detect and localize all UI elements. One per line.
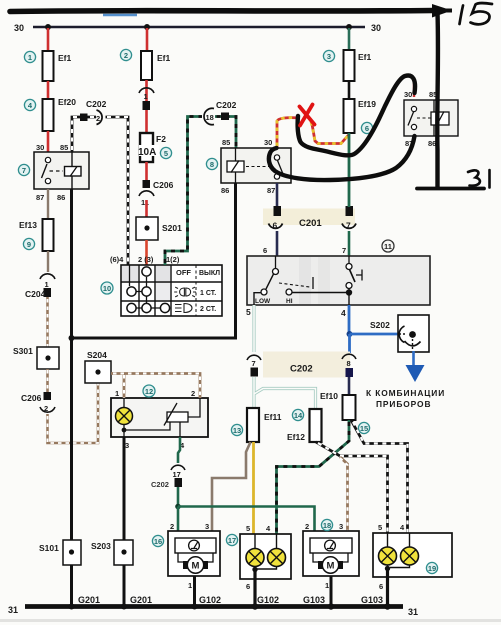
- svg-text:30: 30: [264, 138, 272, 147]
- hand-drawn jumper relay pin87 loop: [269, 136, 415, 180]
- corrector motor right (circled 18): [303, 522, 359, 590]
- svg-text:14: 14: [294, 411, 303, 420]
- svg-text:9: 9: [27, 240, 31, 249]
- wire navy C201-6 to dimmer switch pin6: [276, 231, 279, 256]
- wire green C202-17 to junction: [177, 487, 180, 507]
- connector C202 pin 8: [342, 354, 356, 377]
- relay K7 (circled 7): [34, 143, 89, 202]
- wire blue junction to C202-8: [348, 334, 351, 353]
- wire green bus to Ef1 (3): [348, 28, 351, 50]
- wire red S201 to light switch: [145, 240, 148, 272]
- node blue junction: [347, 331, 353, 337]
- wire green C201-7 to dimmer switch pin7: [348, 231, 351, 256]
- relay top-right: [404, 90, 458, 148]
- svg-text:8: 8: [347, 359, 351, 368]
- wire green junction to corrector 16 pin2: [177, 507, 180, 532]
- svg-text:17: 17: [173, 470, 181, 479]
- wire green-black striped switch pin1(2) to C202-18 to relay K8 pin85: [165, 117, 236, 266]
- svg-text:2: 2: [305, 522, 309, 531]
- svg-text:7: 7: [252, 359, 256, 368]
- fuse Ef1 (middle): [141, 51, 171, 80]
- connector C204 pin 1: [25, 274, 55, 299]
- svg-text:5: 5: [246, 524, 250, 533]
- svg-text:11: 11: [384, 242, 392, 251]
- svg-text:15: 15: [360, 424, 368, 433]
- node ground junction: [69, 335, 75, 341]
- fuse Ef13: [19, 219, 54, 251]
- fuse Ef10: [320, 391, 356, 420]
- node bus30-Ef1b: [144, 24, 150, 30]
- circled 6: [361, 122, 372, 133]
- wire red Ef20 to relay K7 pin30: [47, 131, 50, 152]
- connector C201 pin 6: [269, 206, 283, 231]
- bus 30 line: [33, 26, 365, 29]
- wire brown-white striped C204 to S301: [46, 297, 49, 347]
- circled 10: [101, 282, 113, 294]
- circled 4: [24, 99, 35, 110]
- svg-text:1: 1: [45, 280, 49, 289]
- svg-text:C202: C202: [151, 480, 169, 489]
- wire black-white striped Ef12 to headlamp 19 pin5: [316, 442, 388, 533]
- svg-text:Ef11: Ef11: [264, 412, 282, 422]
- wire striped C206 to S204: [48, 383, 99, 443]
- svg-text:LOW: LOW: [255, 298, 271, 305]
- svg-text:6: 6: [379, 582, 383, 591]
- circled 14: [292, 409, 303, 420]
- svg-text:3: 3: [205, 522, 209, 531]
- svg-text:2 (3): 2 (3): [138, 255, 154, 264]
- fuse Ef11: [247, 408, 282, 442]
- svg-text:Ef13: Ef13: [19, 220, 37, 230]
- wire green control pin4 to C202-17: [178, 437, 180, 463]
- svg-text:6: 6: [246, 582, 250, 591]
- hand-drawn bus 15 bar: [10, 11, 434, 12]
- circled 7: [18, 164, 29, 175]
- circled 5: [160, 147, 171, 158]
- fuse Ef19: [344, 99, 377, 133]
- svg-text:C202: C202: [290, 364, 313, 375]
- svg-text:10A: 10A: [138, 147, 156, 158]
- svg-text:87: 87: [267, 186, 275, 195]
- svg-text:18: 18: [206, 113, 214, 122]
- svg-text:G201: G201: [78, 595, 100, 605]
- wire black headlamp 19 pin6 to bus: [386, 569, 389, 606]
- circled 18: [321, 519, 332, 530]
- wire red bus to Ef1 (2): [146, 28, 149, 51]
- svg-text:6: 6: [365, 124, 369, 133]
- wire red Ef1 to Ef20: [47, 81, 50, 99]
- svg-text:17: 17: [228, 536, 236, 545]
- arrow to instrument cluster: [406, 365, 425, 382]
- splice S202: [370, 315, 429, 352]
- svg-text:31: 31: [408, 607, 418, 617]
- svg-text:5: 5: [246, 307, 251, 317]
- wire black corrector 16 pin1 to bus: [193, 576, 196, 606]
- circled 2: [120, 49, 131, 60]
- svg-text:1: 1: [325, 581, 329, 590]
- wire red F2 to C206: [145, 162, 148, 180]
- fuse Ef12: [287, 409, 322, 442]
- wire white (double) dimmer pin5 to C202-7: [252, 305, 255, 352]
- svg-text:G201: G201: [130, 595, 152, 605]
- headlamp right (circled 19): [373, 523, 452, 591]
- hand-drawn wire 15 to relay 85 and ground: [435, 13, 440, 187]
- node bus dots: [69, 604, 75, 610]
- svg-text:OFF: OFF: [176, 268, 191, 277]
- svg-text:S202: S202: [370, 320, 390, 330]
- fuse F2 10A: [138, 133, 166, 162]
- circled 3: [323, 50, 334, 61]
- svg-text:1: 1: [188, 581, 192, 590]
- circled 1: [24, 51, 35, 62]
- wire brown Ef11 to corrector 16 pin3: [212, 442, 251, 531]
- svg-text:S203: S203: [91, 541, 111, 551]
- svg-text:10: 10: [103, 284, 111, 293]
- svg-text:7: 7: [346, 221, 351, 231]
- circled 15: [358, 422, 369, 433]
- connector C202 pin 17: [151, 465, 185, 489]
- connector C206 pin 2: [21, 392, 55, 413]
- wire black corrector 18 pin1 to bus: [330, 576, 333, 606]
- circled 12: [143, 385, 155, 397]
- svg-text:5: 5: [164, 149, 168, 158]
- circled 11: [382, 240, 394, 252]
- bus 31 line: [25, 604, 403, 609]
- svg-text:S201: S201: [162, 223, 182, 233]
- svg-text:30: 30: [371, 23, 381, 33]
- svg-text:2: 2: [96, 114, 100, 123]
- blue scan mark: [103, 14, 137, 16]
- svg-text:85: 85: [60, 143, 68, 152]
- svg-text:6: 6: [273, 221, 278, 231]
- low/hi contacts: [275, 256, 277, 268]
- hand-drawn red X cut mark: [300, 105, 315, 126]
- svg-text:Ef1: Ef1: [358, 52, 372, 62]
- C201 highlight band: [263, 209, 355, 226]
- wire black headlamp 17 pin6 to bus: [253, 570, 256, 606]
- svg-text:2 СТ.: 2 СТ.: [200, 306, 216, 313]
- svg-text:31: 31: [8, 605, 18, 615]
- svg-text:Ef20: Ef20: [58, 97, 76, 107]
- fuse Ef1 (left): [43, 51, 72, 81]
- C202 highlight band: [263, 352, 350, 378]
- svg-text:13: 13: [233, 426, 241, 435]
- svg-text:C206: C206: [21, 393, 42, 403]
- svg-text:1 СТ.: 1 СТ.: [200, 290, 216, 297]
- wire red C206 to S201: [145, 200, 148, 217]
- node green junction: [175, 504, 181, 510]
- switch contacts: [129, 265, 131, 286]
- handwritten 15: [460, 3, 493, 24]
- node bus30-Ef1a: [45, 24, 51, 30]
- svg-text:G103: G103: [303, 595, 325, 605]
- handwritten 31: [468, 170, 490, 188]
- svg-text:S301: S301: [13, 346, 33, 356]
- svg-text:Ef1: Ef1: [58, 53, 72, 63]
- connector pin 1 inline: [139, 88, 154, 110]
- svg-text:8: 8: [210, 160, 214, 169]
- svg-text:1: 1: [115, 389, 119, 398]
- svg-text:ВЫКЛ: ВЫКЛ: [199, 270, 220, 277]
- wire red Ef1 to connector 1: [145, 80, 148, 101]
- svg-text:4: 4: [341, 308, 346, 318]
- svg-text:86: 86: [428, 139, 436, 148]
- wire navy relay K8 pin87 to C201-6: [276, 183, 279, 207]
- svg-text:F2: F2: [156, 134, 166, 144]
- wire blue to S202: [350, 333, 400, 336]
- svg-text:Ef12: Ef12: [287, 432, 305, 442]
- svg-text:7: 7: [22, 166, 26, 175]
- svg-text:S204: S204: [87, 350, 107, 360]
- svg-text:6: 6: [263, 246, 267, 255]
- svg-text:G102: G102: [199, 595, 221, 605]
- svg-text:3: 3: [327, 52, 331, 61]
- svg-text:19: 19: [428, 564, 436, 573]
- svg-text:16: 16: [154, 537, 162, 546]
- circled 13: [231, 424, 242, 435]
- wire brown relay K7 pin87 to Ef13: [47, 189, 49, 219]
- svg-text:2: 2: [170, 522, 174, 531]
- svg-text:C202: C202: [216, 100, 237, 110]
- svg-text:86: 86: [57, 193, 65, 202]
- corrector motor left (circled 16): [168, 522, 220, 590]
- svg-text:2: 2: [191, 389, 195, 398]
- svg-text:12: 12: [145, 387, 153, 396]
- hand-drawn jumper X-point to relay pin30: [298, 75, 415, 155]
- circled 9: [23, 238, 34, 249]
- connector C202 pin 18: [202, 100, 237, 125]
- wire tan striped S204 to control pins 1,2: [111, 374, 200, 399]
- connector C206 pin 11: [139, 180, 174, 207]
- svg-text:M: M: [192, 561, 200, 572]
- wire black-white striped Ef10 to headlamp 19 pin4: [351, 420, 408, 533]
- splice S101: [39, 540, 81, 565]
- svg-text:C202: C202: [86, 99, 107, 109]
- headlamp icon: [175, 304, 192, 313]
- dimmer switch block (circled 11): [246, 246, 430, 318]
- wire red-yellow striped stub relay K8 pin30: [277, 118, 299, 148]
- wire black relay K8 pin86 to ground run: [72, 183, 236, 338]
- svg-text:HI: HI: [286, 298, 293, 305]
- relay K8 (circled 8): [221, 138, 291, 195]
- wire white C202-7 to Ef11 and Ef12: [254, 377, 316, 409]
- fuse Ef1 (right): [344, 50, 372, 81]
- node bus30-Ef1c: [346, 24, 352, 30]
- light switch block (circled 10): [110, 255, 222, 316]
- svg-text:Ef10: Ef10: [320, 391, 338, 401]
- svg-text:Ef1: Ef1: [157, 53, 171, 63]
- wire black Ef1 to Ef19: [348, 81, 351, 99]
- connector C201 pin 7: [342, 206, 356, 231]
- svg-text:1: 1: [144, 92, 148, 101]
- svg-text:C201: C201: [299, 218, 322, 229]
- wire tan-white striped Ef12 to corrector 18 pin3: [340, 457, 348, 531]
- wire black control pin3 to ground: [123, 437, 126, 606]
- svg-text:S101: S101: [39, 543, 59, 553]
- connector C202 pin 7: [247, 355, 261, 376]
- svg-text:C204: C204: [25, 289, 46, 299]
- wire green junction run to corrector 18 pin2: [178, 507, 315, 532]
- wire blue dimmer pin4 down: [348, 305, 351, 334]
- splice S201: [136, 217, 182, 240]
- circled 17: [226, 534, 237, 545]
- svg-text:30: 30: [36, 143, 44, 152]
- svg-text:30: 30: [14, 23, 24, 33]
- svg-text:Ef19: Ef19: [358, 99, 376, 109]
- wire brown Ef13 to C204: [47, 251, 49, 272]
- wire red connector to F2: [145, 110, 148, 133]
- headlamp left (circled 17): [240, 524, 291, 591]
- svg-text:К КОМБИНАЦИИ: К КОМБИНАЦИИ: [366, 388, 445, 398]
- circled 16: [152, 535, 163, 546]
- svg-text:ПРИБОРОВ: ПРИБОРОВ: [376, 399, 431, 409]
- svg-text:G102: G102: [257, 595, 279, 605]
- svg-text:3: 3: [125, 441, 129, 450]
- svg-text:87: 87: [36, 193, 44, 202]
- fuse Ef20: [43, 97, 77, 131]
- wire yellow Ef11 to headlamp 17 pin5: [252, 442, 255, 534]
- splice S203: [91, 540, 133, 565]
- wire red-yellow striped remnant to Ef19: [311, 120, 349, 144]
- splice S204: [85, 350, 111, 383]
- svg-text:85: 85: [222, 138, 230, 147]
- svg-text:86: 86: [221, 186, 229, 195]
- svg-text:2: 2: [124, 51, 128, 60]
- svg-text:1(2): 1(2): [166, 255, 180, 264]
- svg-text:C206: C206: [153, 180, 174, 190]
- hand-drawn ground bar 31: [417, 187, 484, 191]
- hand-drawn arrowhead: [432, 4, 452, 18]
- wire black-white striped relay K7 pin85 to C202-2 to switch 10: [72, 117, 128, 266]
- svg-text:1: 1: [28, 53, 32, 62]
- circled 8: [206, 158, 217, 169]
- svg-text:3: 3: [339, 522, 343, 531]
- splice S301: [13, 346, 59, 369]
- wire black relay K7 pin86 ground run: [70, 189, 73, 606]
- wire red stub relay pin30: [413, 82, 415, 97]
- wire red bus to Ef1 (1): [47, 28, 50, 51]
- svg-text:G103: G103: [361, 595, 383, 605]
- svg-text:(6)4: (6)4: [110, 255, 124, 264]
- wire green-black striped Ef10 to headlamp 17 pin4: [277, 420, 350, 534]
- position lamp icon: [174, 287, 196, 297]
- svg-text:5: 5: [378, 523, 382, 532]
- connector C202 pin 2: [80, 99, 107, 125]
- svg-text:M: M: [327, 561, 335, 572]
- wire dark blue C202-8 to Ef10: [348, 377, 351, 395]
- svg-text:30: 30: [404, 90, 412, 99]
- svg-text:18: 18: [323, 521, 331, 530]
- wire striped S301 to C206: [46, 369, 49, 392]
- circled 19: [426, 562, 437, 573]
- leveling control (circled 12): [111, 389, 208, 450]
- wire blue S202 to arrow: [412, 351, 415, 366]
- svg-text:7: 7: [342, 246, 346, 255]
- wire green Ef19 to C201-7: [348, 133, 351, 207]
